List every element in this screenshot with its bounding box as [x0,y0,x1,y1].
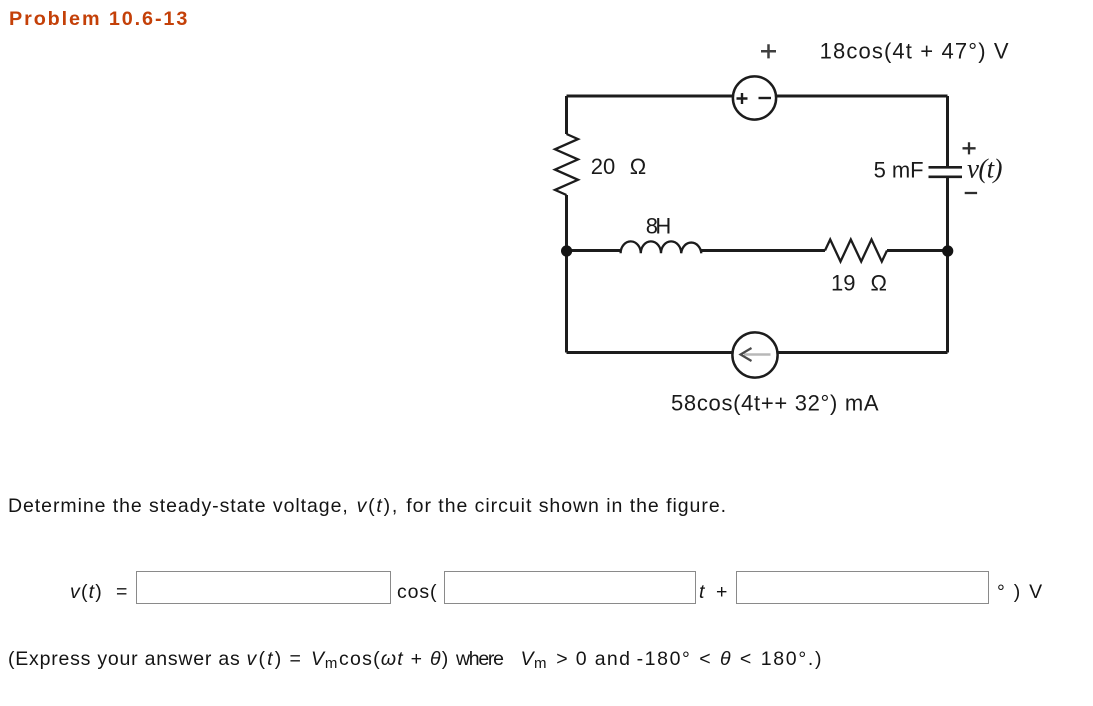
current source arrow shaft [744,353,771,356]
svg-text:18cos(4t + 47°) V: 18cos(4t + 47°) V [820,39,1009,64]
label + (capacitor voltage polarity) [963,142,976,154]
current source circle [732,332,777,377]
wire: middle center segment [701,249,825,252]
input box 2 [444,571,696,604]
voltage source circle [733,76,776,119]
node right junction dot [942,245,953,256]
svg-text:19: 19 [831,271,855,296]
current source arrow head [741,348,752,361]
input box 1 [136,571,391,604]
title "Problem 10.6-13" [9,10,189,30]
label minus (capacitor voltage polarity) [965,192,977,194]
voltage source plus sign [737,93,748,104]
wire: right side upper (to capacitor top plate) [946,96,949,166]
inductor L 8H (middle, horizontal) [621,241,702,253]
wire: right side lower (from capacitor bottom plate) [946,178,949,353]
capacitor C 5mF plates (right side) [929,167,963,177]
svg-text:Ω: Ω [871,271,887,296]
wire: left side lower [565,195,568,353]
wire: left side upper [565,96,568,134]
question text [8,497,349,517]
input box 3 [736,571,989,604]
svg-text:v(t): v(t) [967,154,1003,184]
svg-text:20: 20 [591,154,615,179]
wire: middle right segment [887,249,948,252]
node left junction dot [561,245,572,256]
wire: top side [567,95,948,98]
note text [8,650,241,670]
answer row [70,583,103,603]
svg-text:58cos(4t++ 32°) mA: 58cos(4t++ 32°) mA [671,390,879,415]
voltage source minus sign [759,97,772,99]
wire: bottom side [567,351,948,354]
label + (source polarity, top) [761,44,776,58]
svg-text:5 mF: 5 mF [874,158,924,183]
svg-text:8H: 8H [646,214,672,239]
svg-text:Ω: Ω [630,154,646,179]
resistor R 19ohm (middle, horizontal) [825,240,887,262]
resistor R 20ohm (left, vertical) [555,134,578,195]
wire: middle left segment [567,249,622,252]
